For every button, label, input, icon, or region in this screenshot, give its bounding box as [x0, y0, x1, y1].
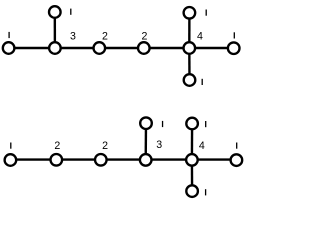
- wire: top tree branch down from node T5: [188, 48, 191, 80]
- wire: bottom tree branch up from node B5: [191, 124, 194, 160]
- label 1 right of node B4a: [162, 121, 163, 127]
- wire: top tree main path: [9, 47, 234, 49]
- node B5a leaf above B5: [186, 118, 198, 130]
- wire: top tree branch up from node T5: [188, 13, 190, 48]
- label 1 above node T1: [8, 32, 9, 38]
- svg-text:2: 2: [102, 140, 108, 152]
- node B5b leaf below B5: [186, 185, 198, 197]
- node T5b leaf below T5: [184, 74, 196, 86]
- svg-text:4: 4: [197, 31, 203, 43]
- node B6 (degree 1): [231, 154, 243, 166]
- label 1 right of node B5b: [205, 189, 206, 195]
- node T5 (degree 4): [184, 42, 196, 54]
- wire: bottom tree branch down from node B5: [191, 160, 194, 192]
- node T6 (degree 1): [228, 42, 240, 54]
- svg-text:3: 3: [70, 31, 76, 43]
- label 1 right of node B5a: [205, 121, 206, 127]
- svg-text:3: 3: [156, 139, 162, 151]
- node B1 (degree 1): [5, 154, 17, 166]
- node B2 (degree 2): [51, 154, 63, 166]
- node T1 (degree 1): [3, 42, 15, 54]
- label 1 right of node T5b: [202, 79, 203, 85]
- label 1 above node B6: [236, 143, 237, 149]
- node T4 (degree 2): [138, 42, 150, 54]
- node T3 (degree 2): [94, 42, 106, 54]
- label 1 above node T6: [234, 32, 235, 38]
- svg-text:4: 4: [199, 140, 205, 152]
- wire: bottom tree main path: [10, 158, 236, 160]
- node T2a leaf above T2: [49, 6, 61, 18]
- svg-text:2: 2: [102, 31, 108, 43]
- node B5 (degree 4): [186, 154, 198, 166]
- node B4 (degree 3): [140, 154, 152, 166]
- node T2 (degree 3): [49, 42, 61, 54]
- svg-text:2: 2: [54, 140, 60, 152]
- node B3 (degree 2): [95, 154, 107, 166]
- label 1 right of node T5a: [206, 10, 207, 16]
- wire: top tree branch up from node T2: [54, 12, 57, 48]
- label 1 above node B1: [10, 143, 11, 149]
- node B4a leaf above B4: [140, 117, 152, 129]
- svg-text:2: 2: [141, 31, 147, 43]
- node T5a leaf above T5: [184, 7, 196, 19]
- label 1 right of node T2a: [70, 9, 71, 15]
- wire: bottom tree branch up from node B4: [144, 123, 147, 159]
